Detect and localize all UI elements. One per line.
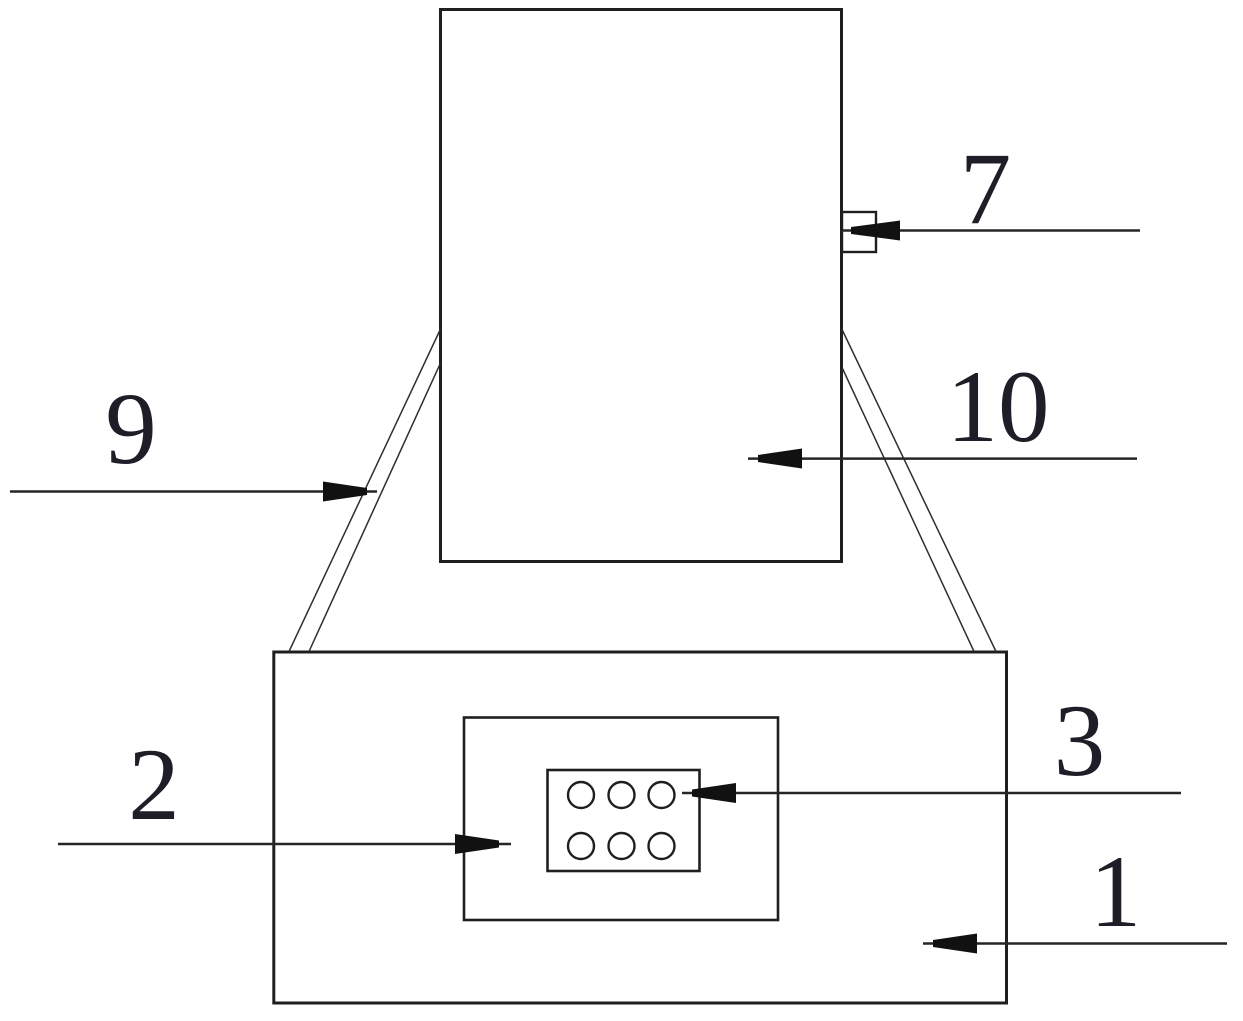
svg-text:7: 7 [960,132,1012,246]
svg-text:2: 2 [128,728,180,842]
svg-text:3: 3 [1054,684,1106,798]
svg-text:1: 1 [1090,835,1142,949]
svg-text:10: 10 [947,350,1050,464]
svg-text:9: 9 [105,372,157,486]
